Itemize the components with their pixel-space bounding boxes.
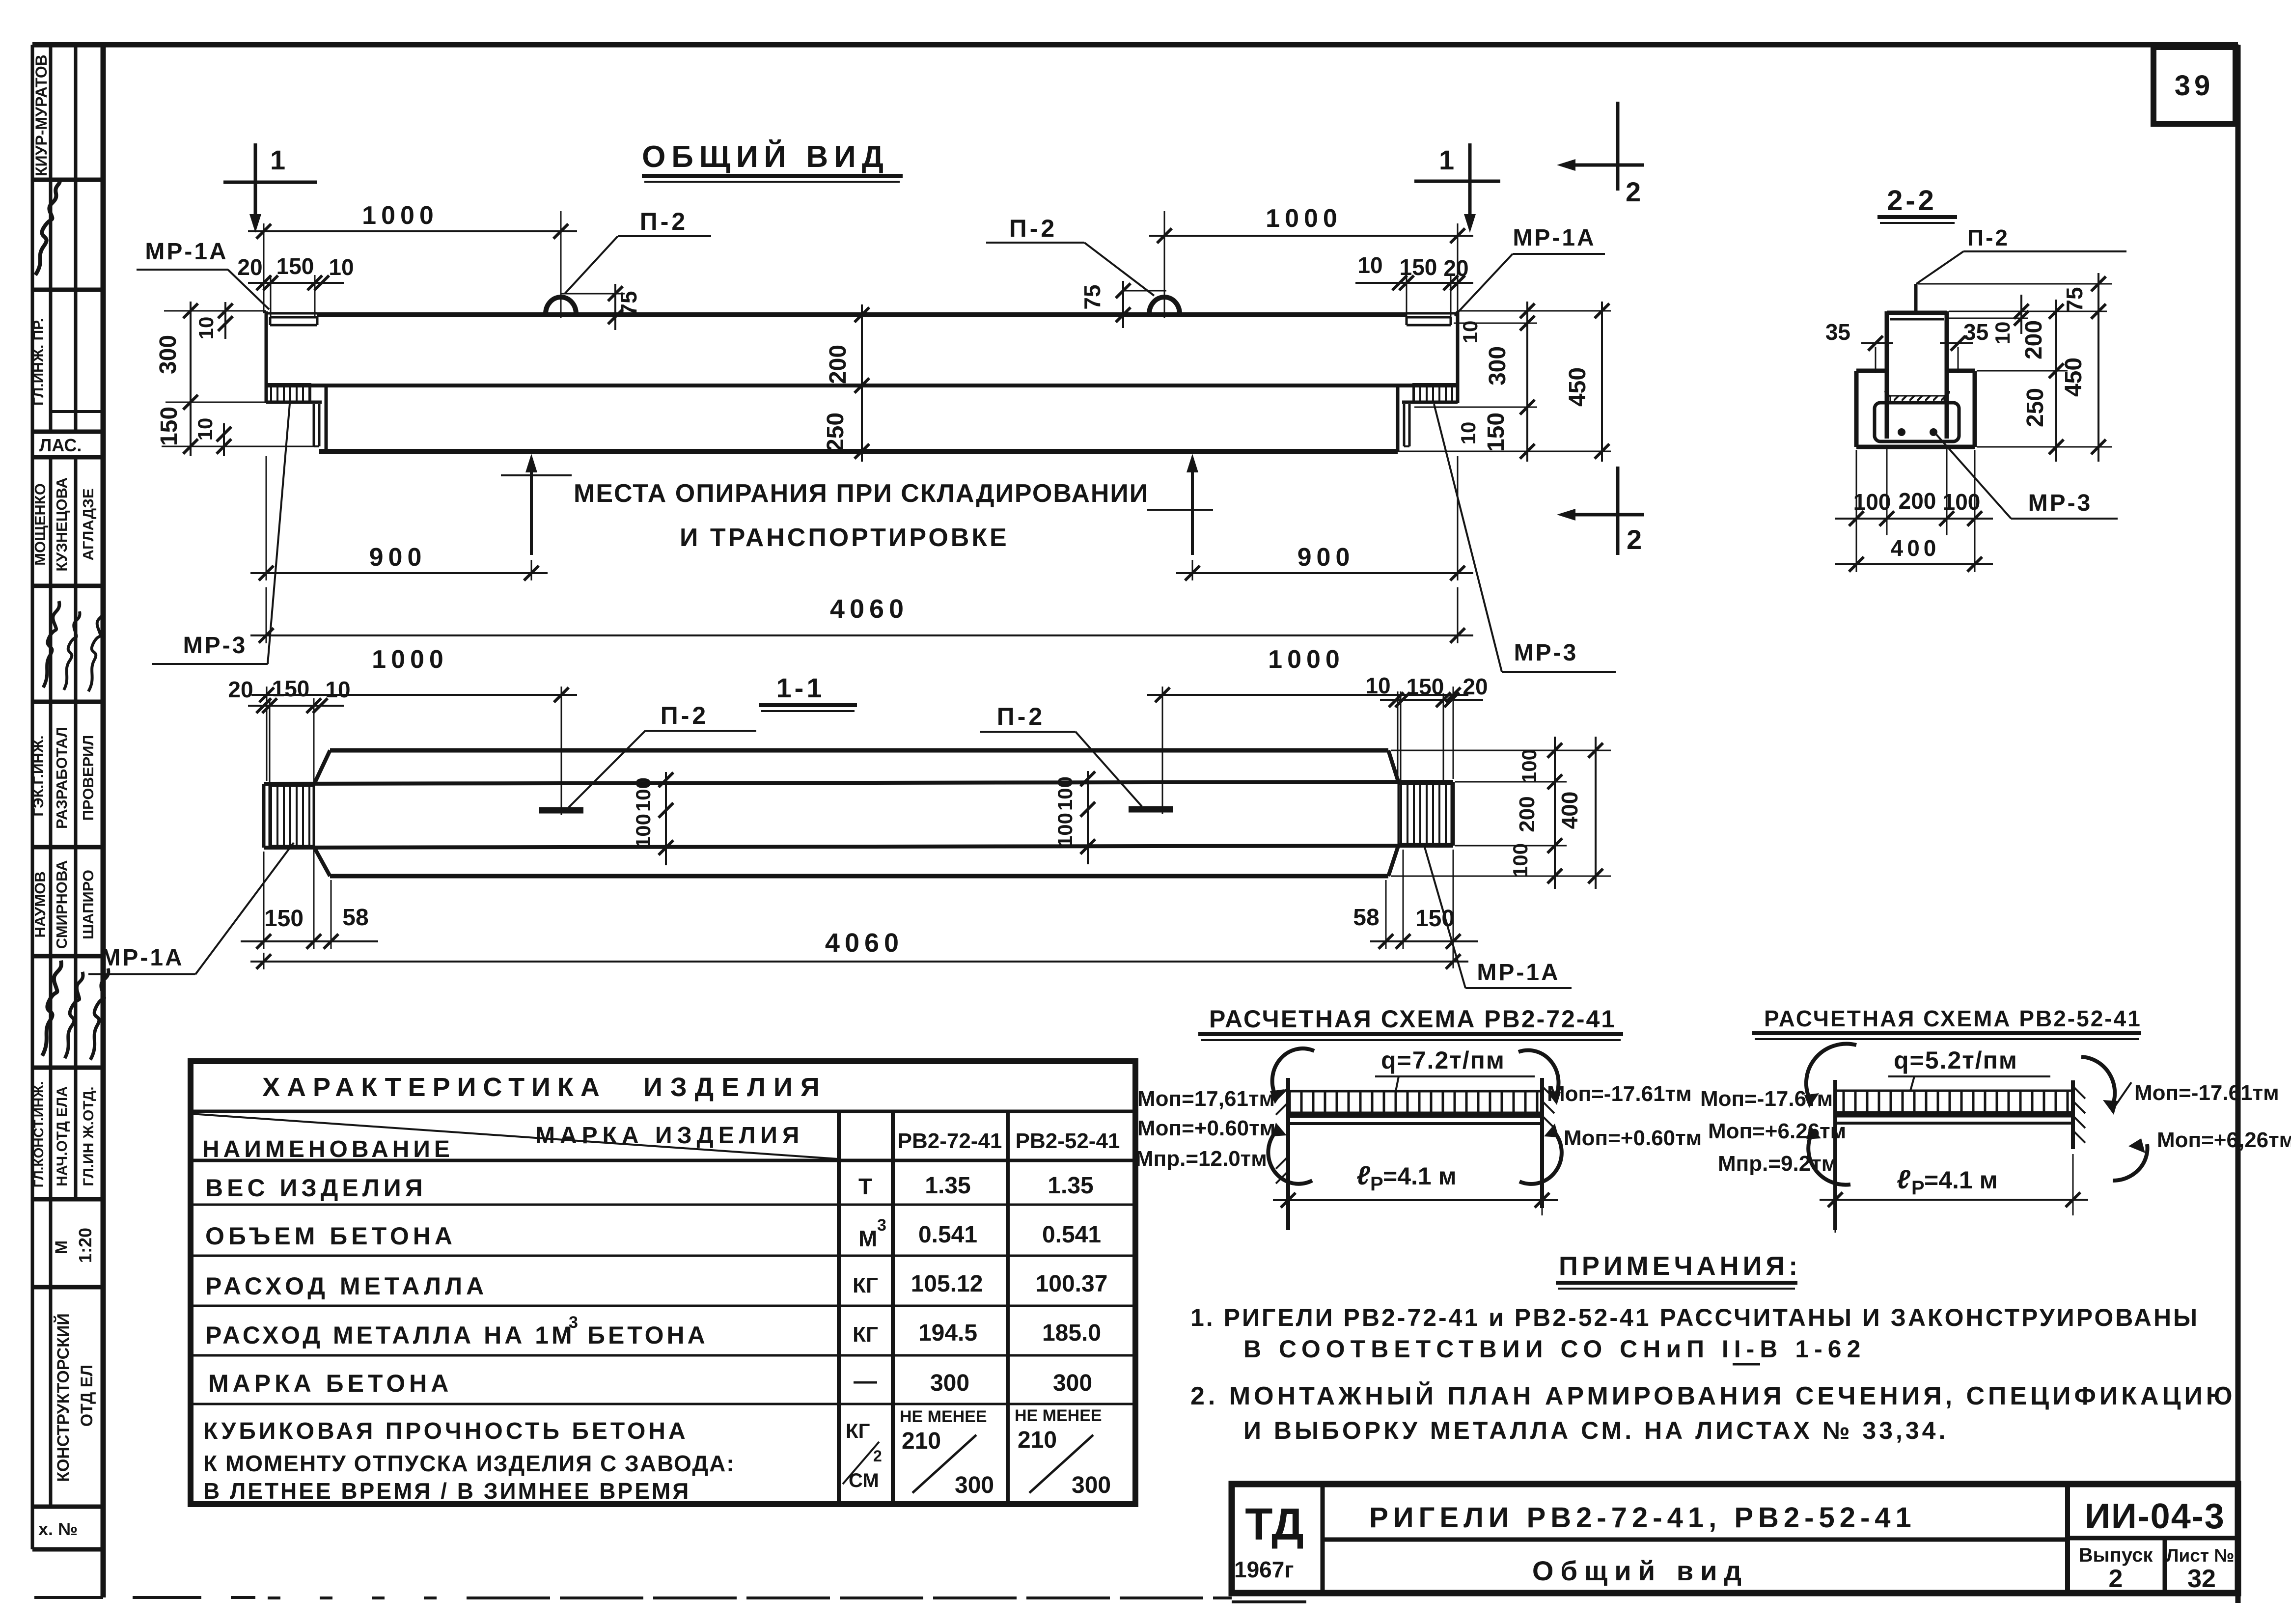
label MR-1A right with leader <box>1455 225 1605 316</box>
svg-text:75: 75 <box>616 291 641 316</box>
svg-text:210: 210 <box>1018 1427 1057 1453</box>
wire beam left end face <box>265 311 268 403</box>
SECTION 1-1 (PLAN) <box>88 645 1611 988</box>
svg-text:КОНСТРУКТОРСКИЙ: КОНСТРУКТОРСКИЙ <box>54 1313 73 1482</box>
wire left step face <box>325 385 328 451</box>
dimension 400 <box>1835 535 1993 572</box>
node title block outer border <box>1232 1484 2238 1593</box>
svg-text:МАРКА БЕТОНА: МАРКА БЕТОНА <box>208 1370 452 1397</box>
svg-text:450: 450 <box>1565 367 1591 407</box>
label P-2 left plan <box>569 702 756 807</box>
wire right step face <box>1396 385 1400 451</box>
svg-text:П-2: П-2 <box>661 702 709 729</box>
wire plan outer bottom edge <box>330 874 1388 879</box>
svg-text:ℓ: ℓ <box>1897 1165 1911 1194</box>
svg-text:10: 10 <box>325 677 350 702</box>
svg-text:200: 200 <box>1899 488 1936 514</box>
node mortar joint hatched MR-3 <box>1890 396 1944 403</box>
wire beam right end face <box>1456 311 1460 403</box>
svg-text:1-1: 1-1 <box>776 672 825 703</box>
svg-text:РАСХОД МЕТАЛЛА НА 1М: РАСХОД МЕТАЛЛА НА 1М <box>205 1321 575 1349</box>
SECTION 2-2 <box>1825 185 2126 572</box>
svg-text:МЕСТА ОПИРАНИЯ ПРИ СКЛАДИРОВАН: МЕСТА ОПИРАНИЯ ПРИ СКЛАДИРОВАНИИ <box>574 479 1149 508</box>
dimension 100 100 left middle <box>632 772 673 865</box>
svg-text:150: 150 <box>264 906 304 932</box>
node scheme1 left support <box>1286 1078 1290 1230</box>
svg-text:МР-3: МР-3 <box>183 633 248 659</box>
wire top border <box>32 42 2238 48</box>
svg-text:39: 39 <box>2175 70 2214 102</box>
label MR-1A left plan <box>88 843 294 974</box>
svg-text:250: 250 <box>823 413 849 452</box>
svg-text:150: 150 <box>1483 413 1509 452</box>
wire beam mid line <box>266 384 1458 387</box>
node scheme1 right moment arcs <box>1518 1050 1558 1099</box>
svg-text:Лист №: Лист № <box>2166 1545 2235 1566</box>
svg-text:20: 20 <box>1443 255 1468 281</box>
svg-text:3: 3 <box>569 1313 578 1332</box>
svg-text:Моп=+0.60тм: Моп=+0.60тм <box>1137 1116 1275 1140</box>
svg-text:0.541: 0.541 <box>1042 1222 1101 1248</box>
svg-text:150: 150 <box>276 253 314 279</box>
wire table header diagonal <box>192 1114 838 1159</box>
node rebar dots <box>1898 428 1905 436</box>
dimension chain left 300 150 <box>155 302 314 456</box>
svg-text:1:20: 1:20 <box>75 1228 95 1263</box>
dimension 10 left top small <box>194 302 233 339</box>
svg-text:х. №: х. № <box>38 1519 78 1539</box>
svg-text:100: 100 <box>1518 749 1541 783</box>
svg-text:185.0: 185.0 <box>1042 1320 1101 1346</box>
svg-text:ЛАС.: ЛАС. <box>39 435 82 455</box>
svg-text:МР-3: МР-3 <box>1514 640 1578 666</box>
svg-text:Выпуск: Выпуск <box>2079 1544 2153 1566</box>
svg-text:210: 210 <box>902 1428 941 1454</box>
wire table column dividers <box>837 1111 841 1504</box>
svg-text:КГ: КГ <box>853 1322 878 1347</box>
svg-text:100: 100 <box>632 777 655 812</box>
svg-text:ШАПИРО: ШАПИРО <box>80 870 97 939</box>
wire TD box divider <box>1321 1484 1325 1593</box>
svg-text:МАРКА ИЗДЕЛИЯ: МАРКА ИЗДЕЛИЯ <box>535 1123 804 1149</box>
svg-text:Моп=+0.60тм: Моп=+0.60тм <box>1564 1126 1702 1150</box>
svg-text:100: 100 <box>1509 843 1532 878</box>
svg-text:МОЩЕНКО: МОЩЕНКО <box>31 483 49 566</box>
dimension chain 10 150 20 right <box>1355 252 1473 317</box>
section mark 2 top <box>1557 102 1644 207</box>
svg-text:300: 300 <box>930 1370 969 1396</box>
svg-text:Общий вид: Общий вид <box>1532 1555 1748 1586</box>
node left lifting loop P-2 <box>546 297 576 317</box>
svg-text:200: 200 <box>2021 320 2047 359</box>
dimension 900 left <box>250 456 548 580</box>
svg-text:1.35: 1.35 <box>925 1173 970 1199</box>
dimension 4060 plan <box>250 928 1468 969</box>
dimension 35 left <box>1825 319 1893 373</box>
svg-text:400: 400 <box>1891 535 1940 561</box>
dimension chain 100 200 100 bottom <box>1835 446 1993 572</box>
dimension 900 right <box>1176 456 1473 580</box>
svg-text:ВЕС ИЗДЕЛИЯ: ВЕС ИЗДЕЛИЯ <box>205 1174 427 1202</box>
svg-text:В ЛЕТНЕЕ ВРЕМЯ / В ЗИМНЕЕ ВРЕМ: В ЛЕТНЕЕ ВРЕМЯ / В ЗИМНЕЕ ВРЕМЯ <box>203 1478 690 1504</box>
wire sidebar row dividers <box>32 178 103 182</box>
dimension 75 and 450 <box>2061 273 2106 462</box>
svg-text:П-2: П-2 <box>1967 225 2010 250</box>
svg-text:400: 400 <box>1557 792 1582 829</box>
svg-text:КУЗНЕЦОВА: КУЗНЕЦОВА <box>53 477 70 571</box>
wire sidebar outer left line <box>31 45 34 1549</box>
svg-text:150: 150 <box>272 676 310 701</box>
svg-text:0.541: 0.541 <box>918 1222 977 1248</box>
node socket recess <box>1875 403 1959 441</box>
svg-text:НАИМЕНОВАНИЕ: НАИМЕНОВАНИЕ <box>202 1136 454 1162</box>
node left bearing pad MR-3 hatched <box>266 384 310 402</box>
label P-2 left with leader <box>565 208 711 294</box>
svg-text:300: 300 <box>1485 346 1511 385</box>
wire sidebar column line B <box>49 45 53 432</box>
dimension 58 150 right bottom <box>1353 850 1478 968</box>
svg-text:105.12: 105.12 <box>911 1271 983 1297</box>
section mark 1 left <box>223 143 317 233</box>
wire small dash below block <box>1232 1600 1306 1603</box>
wire bottom dashed sheet edge <box>34 1597 1232 1598</box>
svg-text:900: 900 <box>1297 543 1355 572</box>
dimension 100 100 right middle <box>1053 771 1095 864</box>
svg-text:10: 10 <box>194 317 218 340</box>
svg-text:20: 20 <box>237 254 262 280</box>
svg-text:1967г: 1967г <box>1234 1557 1294 1582</box>
svg-text:P: P <box>1370 1173 1383 1195</box>
node scheme1 left moment arcs <box>1272 1048 1314 1098</box>
svg-text:300: 300 <box>155 335 181 374</box>
svg-text:Моп=+6,26тм: Моп=+6,26тм <box>2157 1128 2291 1152</box>
svg-text:100: 100 <box>1853 489 1891 515</box>
wire sidebar column line C <box>74 45 78 432</box>
label MR-3 left with leader <box>152 404 290 664</box>
svg-text:ПРОВЕРИЛ: ПРОВЕРИЛ <box>80 735 97 821</box>
svg-text:В СООТВЕТСТВИИ СО СНиП II-В 1: В СООТВЕТСТВИИ СО СНиП II-В 1-62 <box>1243 1335 1866 1363</box>
svg-text:75: 75 <box>2062 287 2087 312</box>
svg-text:P: P <box>1911 1177 1925 1199</box>
svg-text:СМИРНОВА: СМИРНОВА <box>53 860 70 949</box>
node plan left end plate MR-1A hatched <box>270 786 314 846</box>
svg-text:10: 10 <box>1357 252 1382 278</box>
svg-text:1. РИГЕЛИ РВ2-72-41 и РВ2-52-4: 1. РИГЕЛИ РВ2-72-41 и РВ2-52-41 РАССЧИТА… <box>1190 1304 2199 1331</box>
wire table row dividers <box>191 1110 1135 1113</box>
svg-text:10: 10 <box>1459 321 1482 344</box>
svg-text:ГЛ.КОНСТ.ИНЖ.: ГЛ.КОНСТ.ИНЖ. <box>31 1081 46 1187</box>
svg-text:q=5.2т/пм: q=5.2т/пм <box>1894 1046 2018 1074</box>
wire plan inner bottom edge <box>264 846 1453 848</box>
svg-text:МР-3: МР-3 <box>2028 490 2093 516</box>
svg-text:100.37: 100.37 <box>1036 1271 1108 1297</box>
svg-text:КГ: КГ <box>846 1419 870 1442</box>
svg-text:РВ2-52-41: РВ2-52-41 <box>1016 1129 1120 1153</box>
svg-text:1.35: 1.35 <box>1048 1173 1093 1199</box>
svg-text:Т: Т <box>858 1174 872 1199</box>
dimension 4060 total <box>250 587 1473 643</box>
label MR-1A left with leader <box>137 239 269 309</box>
CALC SCHEME RV2-72-41 <box>1135 1005 1702 1230</box>
node scheme2 right moment arcs <box>2081 1057 2115 1108</box>
svg-text:ГЛ.ИН Ж.ОТД.: ГЛ.ИН Ж.ОТД. <box>81 1086 97 1186</box>
svg-text:10: 10 <box>1365 673 1390 698</box>
svg-text:ОБЩИЙ ВИД: ОБЩИЙ ВИД <box>642 139 889 174</box>
node right bearing pad MR-3 hatched <box>1413 384 1458 402</box>
wire beam top edge <box>317 312 1407 317</box>
svg-text:НАУМОВ: НАУМОВ <box>31 871 49 937</box>
svg-text:1: 1 <box>270 144 285 175</box>
node loop wire <box>1914 284 1918 312</box>
svg-text:35: 35 <box>1825 319 1850 345</box>
svg-text:2: 2 <box>873 1447 882 1465</box>
TITLE BLOCK <box>1232 1484 2238 1602</box>
dimension chain right 100 200 100 plan <box>1391 737 1611 889</box>
svg-text:НАЧ.ОТД ЕЛА: НАЧ.ОТД ЕЛА <box>54 1086 70 1186</box>
svg-text:200: 200 <box>1515 796 1539 832</box>
LEFT STAMP SIDEBAR <box>30 45 109 1597</box>
node sidebar signatures row 2 <box>43 601 59 688</box>
dimension 10 left bottom small <box>193 418 231 456</box>
dimension 10 plate <box>1991 295 2029 344</box>
svg-text:=4.1 м: =4.1 м <box>1924 1166 1998 1194</box>
svg-text:АГЛАДЗЕ: АГЛАДЗЕ <box>80 488 97 560</box>
svg-text:РАЗРАБОТАЛ: РАЗРАБОТАЛ <box>53 727 70 829</box>
GENERAL VIEW (ELEVATION) <box>137 102 1644 672</box>
svg-text:450: 450 <box>2061 358 2087 397</box>
node scheme1 beam with load <box>1288 1091 1542 1113</box>
wire plan outer top edge <box>330 748 1388 753</box>
wire beam bottom edge <box>319 449 1398 454</box>
svg-text:35: 35 <box>1963 319 1988 345</box>
svg-text:РИГЕЛИ РВ2-72-41, РВ2-52-41: РИГЕЛИ РВ2-72-41, РВ2-52-41 <box>1369 1502 1916 1534</box>
svg-text:2: 2 <box>1626 176 1641 207</box>
svg-text:300: 300 <box>1053 1370 1092 1396</box>
svg-text:1000: 1000 <box>362 201 439 230</box>
label MR-3 right with leader <box>1434 404 1616 672</box>
node scheme2 left support <box>1833 1080 1837 1230</box>
svg-text:НЕ МЕНЕЕ: НЕ МЕНЕЕ <box>900 1407 987 1426</box>
svg-text:100: 100 <box>1053 776 1076 811</box>
svg-text:1000: 1000 <box>1268 645 1345 674</box>
label MR-1A right plan <box>1424 846 1572 988</box>
dimension chain 20 150 10 left <box>237 253 354 317</box>
dimension 75 right loop <box>1079 281 1166 328</box>
NOTES <box>1190 1251 2236 1444</box>
node left top plate MR-1A <box>270 317 317 325</box>
node page number box 39 <box>2153 47 2236 124</box>
svg-text:РВ2-72-41: РВ2-72-41 <box>898 1129 1002 1153</box>
dimension 1000 left top <box>248 201 577 318</box>
svg-text:10: 10 <box>1991 322 2014 345</box>
svg-text:=4.1 м: =4.1 м <box>1383 1162 1457 1190</box>
svg-text:150: 150 <box>156 407 182 446</box>
node beam cross-section 2-2 <box>1887 311 1947 439</box>
dimension 1000 right plan <box>1147 645 1468 814</box>
node plan right end plate MR-1A hatched <box>1399 784 1452 844</box>
svg-text:И ТРАНСПОРТИРОВКЕ: И ТРАНСПОРТИРОВКЕ <box>680 523 1009 552</box>
dimension chain 20 150 10 left plan <box>228 676 350 785</box>
svg-text:ПРИМЕЧАНИЯ:: ПРИМЕЧАНИЯ: <box>1559 1251 1801 1281</box>
svg-text:ХАРАКТЕРИСТИКА: ХАРАКТЕРИСТИКА <box>262 1073 607 1102</box>
node sidebar signatures row 3 <box>42 961 61 1056</box>
dimension chain 10 150 20 right plan <box>1365 673 1488 782</box>
svg-text:ℓ: ℓ <box>1356 1161 1371 1190</box>
svg-text:4060: 4060 <box>825 928 904 958</box>
wire vypusk list divider <box>2163 1538 2167 1593</box>
wire series box divider <box>2065 1484 2070 1593</box>
svg-text:150: 150 <box>1407 674 1444 699</box>
node scheme2 right moment texts with leader <box>2112 1082 2131 1111</box>
svg-text:НЕ МЕНЕЕ: НЕ МЕНЕЕ <box>1015 1406 1102 1425</box>
svg-text:2: 2 <box>2109 1565 2123 1593</box>
node right step angle plate <box>1403 404 1406 446</box>
svg-text:И ВЫБОРКУ МЕТАЛЛА СМ. НА ЛИСТА: И ВЫБОРКУ МЕТАЛЛА СМ. НА ЛИСТАХ № 33,34. <box>1243 1417 1948 1444</box>
svg-text:100: 100 <box>632 814 655 848</box>
dimension 75 left loop <box>561 284 641 330</box>
CHARACTERISTICS TABLE <box>191 1061 1135 1504</box>
svg-text:100: 100 <box>1943 489 1981 515</box>
svg-text:ТД: ТД <box>1245 1499 1303 1549</box>
node loop dash left P-2 <box>539 807 583 814</box>
svg-text:2. МОНТАЖНЫЙ ПЛАН АРМИРОВАНИЯ: 2. МОНТАЖНЫЙ ПЛАН АРМИРОВАНИЯ СЕЧЕНИЯ, С… <box>1190 1381 2236 1410</box>
wire plan right end face <box>1452 782 1455 846</box>
section mark 1 right <box>1414 143 1500 233</box>
dimension 400 plan <box>1557 737 1603 889</box>
svg-text:РАСЧЕТНАЯ СХЕМА РВ2-72-41: РАСЧЕТНАЯ СХЕМА РВ2-72-41 <box>1209 1005 1616 1033</box>
dimension 1000 left plan <box>251 645 577 815</box>
svg-text:П-2: П-2 <box>1009 215 1057 242</box>
svg-text:Моп=-17.6тм: Моп=-17.6тм <box>1700 1087 1833 1111</box>
section mark 2 bottom <box>1557 467 1644 555</box>
node loop dash right P-2 <box>1129 806 1173 813</box>
svg-text:П-2: П-2 <box>997 703 1045 730</box>
svg-text:Мпр.=9.2тм: Мпр.=9.2тм <box>1718 1152 1837 1176</box>
svg-text:П-2: П-2 <box>640 208 688 235</box>
svg-text:КИУР-МУРАТОВ: КИУР-МУРАТОВ <box>32 55 50 176</box>
dimension 35 right <box>1940 319 1988 373</box>
svg-text:900: 900 <box>369 543 427 572</box>
svg-text:—: — <box>854 1368 877 1394</box>
svg-text:МР-1А: МР-1А <box>145 239 228 265</box>
svg-text:2-2: 2-2 <box>1887 185 1937 217</box>
svg-text:РАСХОД МЕТАЛЛА: РАСХОД МЕТАЛЛА <box>205 1272 488 1300</box>
svg-text:300: 300 <box>1072 1472 1111 1498</box>
svg-text:150: 150 <box>1400 254 1437 280</box>
svg-text:10: 10 <box>329 254 354 280</box>
wire title row divider <box>1323 1538 2068 1542</box>
node table outer border <box>191 1061 1135 1504</box>
wire series row divider <box>2068 1536 2238 1541</box>
svg-text:75: 75 <box>1079 284 1105 309</box>
label MR-3 with leader <box>1936 435 2118 519</box>
svg-text:СМ: СМ <box>849 1470 879 1491</box>
svg-text:2: 2 <box>1627 524 1642 555</box>
svg-text:МР-1А: МР-1А <box>1513 225 1596 251</box>
svg-text:1000: 1000 <box>1266 204 1342 233</box>
dimension chain 200 250 <box>2021 300 2064 462</box>
wire plan chamfers <box>314 750 330 785</box>
label P-2 right plan <box>980 703 1142 806</box>
svg-text:КУБИКОВАЯ ПРОЧНОСТЬ БЕТОНА: КУБИКОВАЯ ПРОЧНОСТЬ БЕТОНА <box>203 1418 689 1444</box>
svg-text:q=7.2т/пм: q=7.2т/пм <box>1381 1046 1505 1074</box>
node scheme1 right support <box>1540 1078 1544 1208</box>
node support cup console <box>1856 371 1975 447</box>
dimension right 450 <box>1398 302 1611 462</box>
svg-text:20: 20 <box>1463 674 1488 699</box>
wire plan left end face <box>262 784 266 848</box>
extension lines right side <box>1918 283 2112 285</box>
svg-text:300: 300 <box>955 1472 994 1498</box>
node sidebar signature 1 <box>35 179 60 275</box>
svg-text:МР-1А: МР-1А <box>1477 960 1560 986</box>
svg-text:100: 100 <box>1053 813 1076 847</box>
label P-2 right with leader <box>986 215 1154 296</box>
node right lifting loop P-2 <box>1149 297 1180 317</box>
svg-text:4060: 4060 <box>830 594 909 624</box>
svg-text:200: 200 <box>825 345 851 384</box>
node scheme2 left moment arcs <box>1806 1044 1856 1102</box>
wire main frame left border <box>101 45 106 1597</box>
svg-text:ГЭК.Г.ИНЖ.: ГЭК.Г.ИНЖ. <box>30 735 47 816</box>
svg-text:РАСЧЕТНАЯ СХЕМА РВ2-52-41: РАСЧЕТНАЯ СХЕМА РВ2-52-41 <box>1764 1006 2142 1031</box>
svg-text:М: М <box>52 1240 71 1254</box>
dimension 1000 right top <box>1149 204 1473 318</box>
wire title underline <box>642 174 903 178</box>
svg-text:Моп=-17.61тм: Моп=-17.61тм <box>1547 1082 1692 1106</box>
dimension 150 58 left bottom <box>241 850 378 949</box>
svg-text:М: М <box>858 1226 877 1251</box>
svg-text:Моп=+6.26тм: Моп=+6.26тм <box>1708 1119 1846 1143</box>
svg-text:К МОМЕНТУ ОТПУСКА ИЗДЕЛИЯ С ЗА: К МОМЕНТУ ОТПУСКА ИЗДЕЛИЯ С ЗАВОДА: <box>203 1451 735 1476</box>
svg-text:10: 10 <box>1457 422 1480 445</box>
svg-text:58: 58 <box>342 905 368 931</box>
svg-text:194.5: 194.5 <box>918 1320 977 1346</box>
node support arrow left <box>525 454 537 555</box>
svg-text:1: 1 <box>1439 144 1454 175</box>
svg-text:3: 3 <box>877 1216 886 1235</box>
svg-text:БЕТОНА: БЕТОНА <box>587 1321 708 1349</box>
svg-text:ОБЪЕМ БЕТОНА: ОБЪЕМ БЕТОНА <box>205 1222 456 1250</box>
node right top plate MR-1A <box>1407 317 1451 325</box>
svg-text:КГ: КГ <box>853 1273 878 1297</box>
svg-text:Моп=-17.61тм: Моп=-17.61тм <box>2134 1081 2279 1105</box>
svg-text:20: 20 <box>228 677 253 702</box>
node scheme2 right support <box>2071 1080 2075 1149</box>
svg-text:МР-1А: МР-1А <box>101 945 184 971</box>
svg-text:32: 32 <box>2187 1565 2216 1593</box>
label mesta opiraniya note <box>501 475 1213 552</box>
wire right border <box>2236 45 2241 1603</box>
svg-text:ИЗДЕЛИЯ: ИЗДЕЛИЯ <box>643 1073 828 1102</box>
CALC SCHEME RV2-52-41 <box>1700 1006 2291 1233</box>
svg-text:ГЛ.ИНЖ. ПР.: ГЛ.ИНЖ. ПР. <box>30 318 47 406</box>
svg-text:58: 58 <box>1353 905 1379 931</box>
svg-text:10: 10 <box>193 418 217 441</box>
svg-text:Моп=17,61тм: Моп=17,61тм <box>1137 1087 1275 1111</box>
node left step angle plate <box>313 404 315 446</box>
svg-text:Мпр.=12.0тм: Мпр.=12.0тм <box>1135 1147 1267 1171</box>
wire plan inner top edge <box>264 782 1453 784</box>
node support arrow right <box>1187 454 1198 555</box>
dimension chain middle 200 250 <box>823 304 869 462</box>
svg-text:ИИ-04-3: ИИ-04-3 <box>2085 1497 2225 1536</box>
node scheme2 beam with load <box>1835 1091 2073 1112</box>
dimension chain right 10 300 150 <box>1414 302 1611 462</box>
svg-text:250: 250 <box>2022 388 2048 427</box>
svg-text:1000: 1000 <box>372 645 448 674</box>
svg-text:ОТД ЕЛ: ОТД ЕЛ <box>78 1365 96 1427</box>
